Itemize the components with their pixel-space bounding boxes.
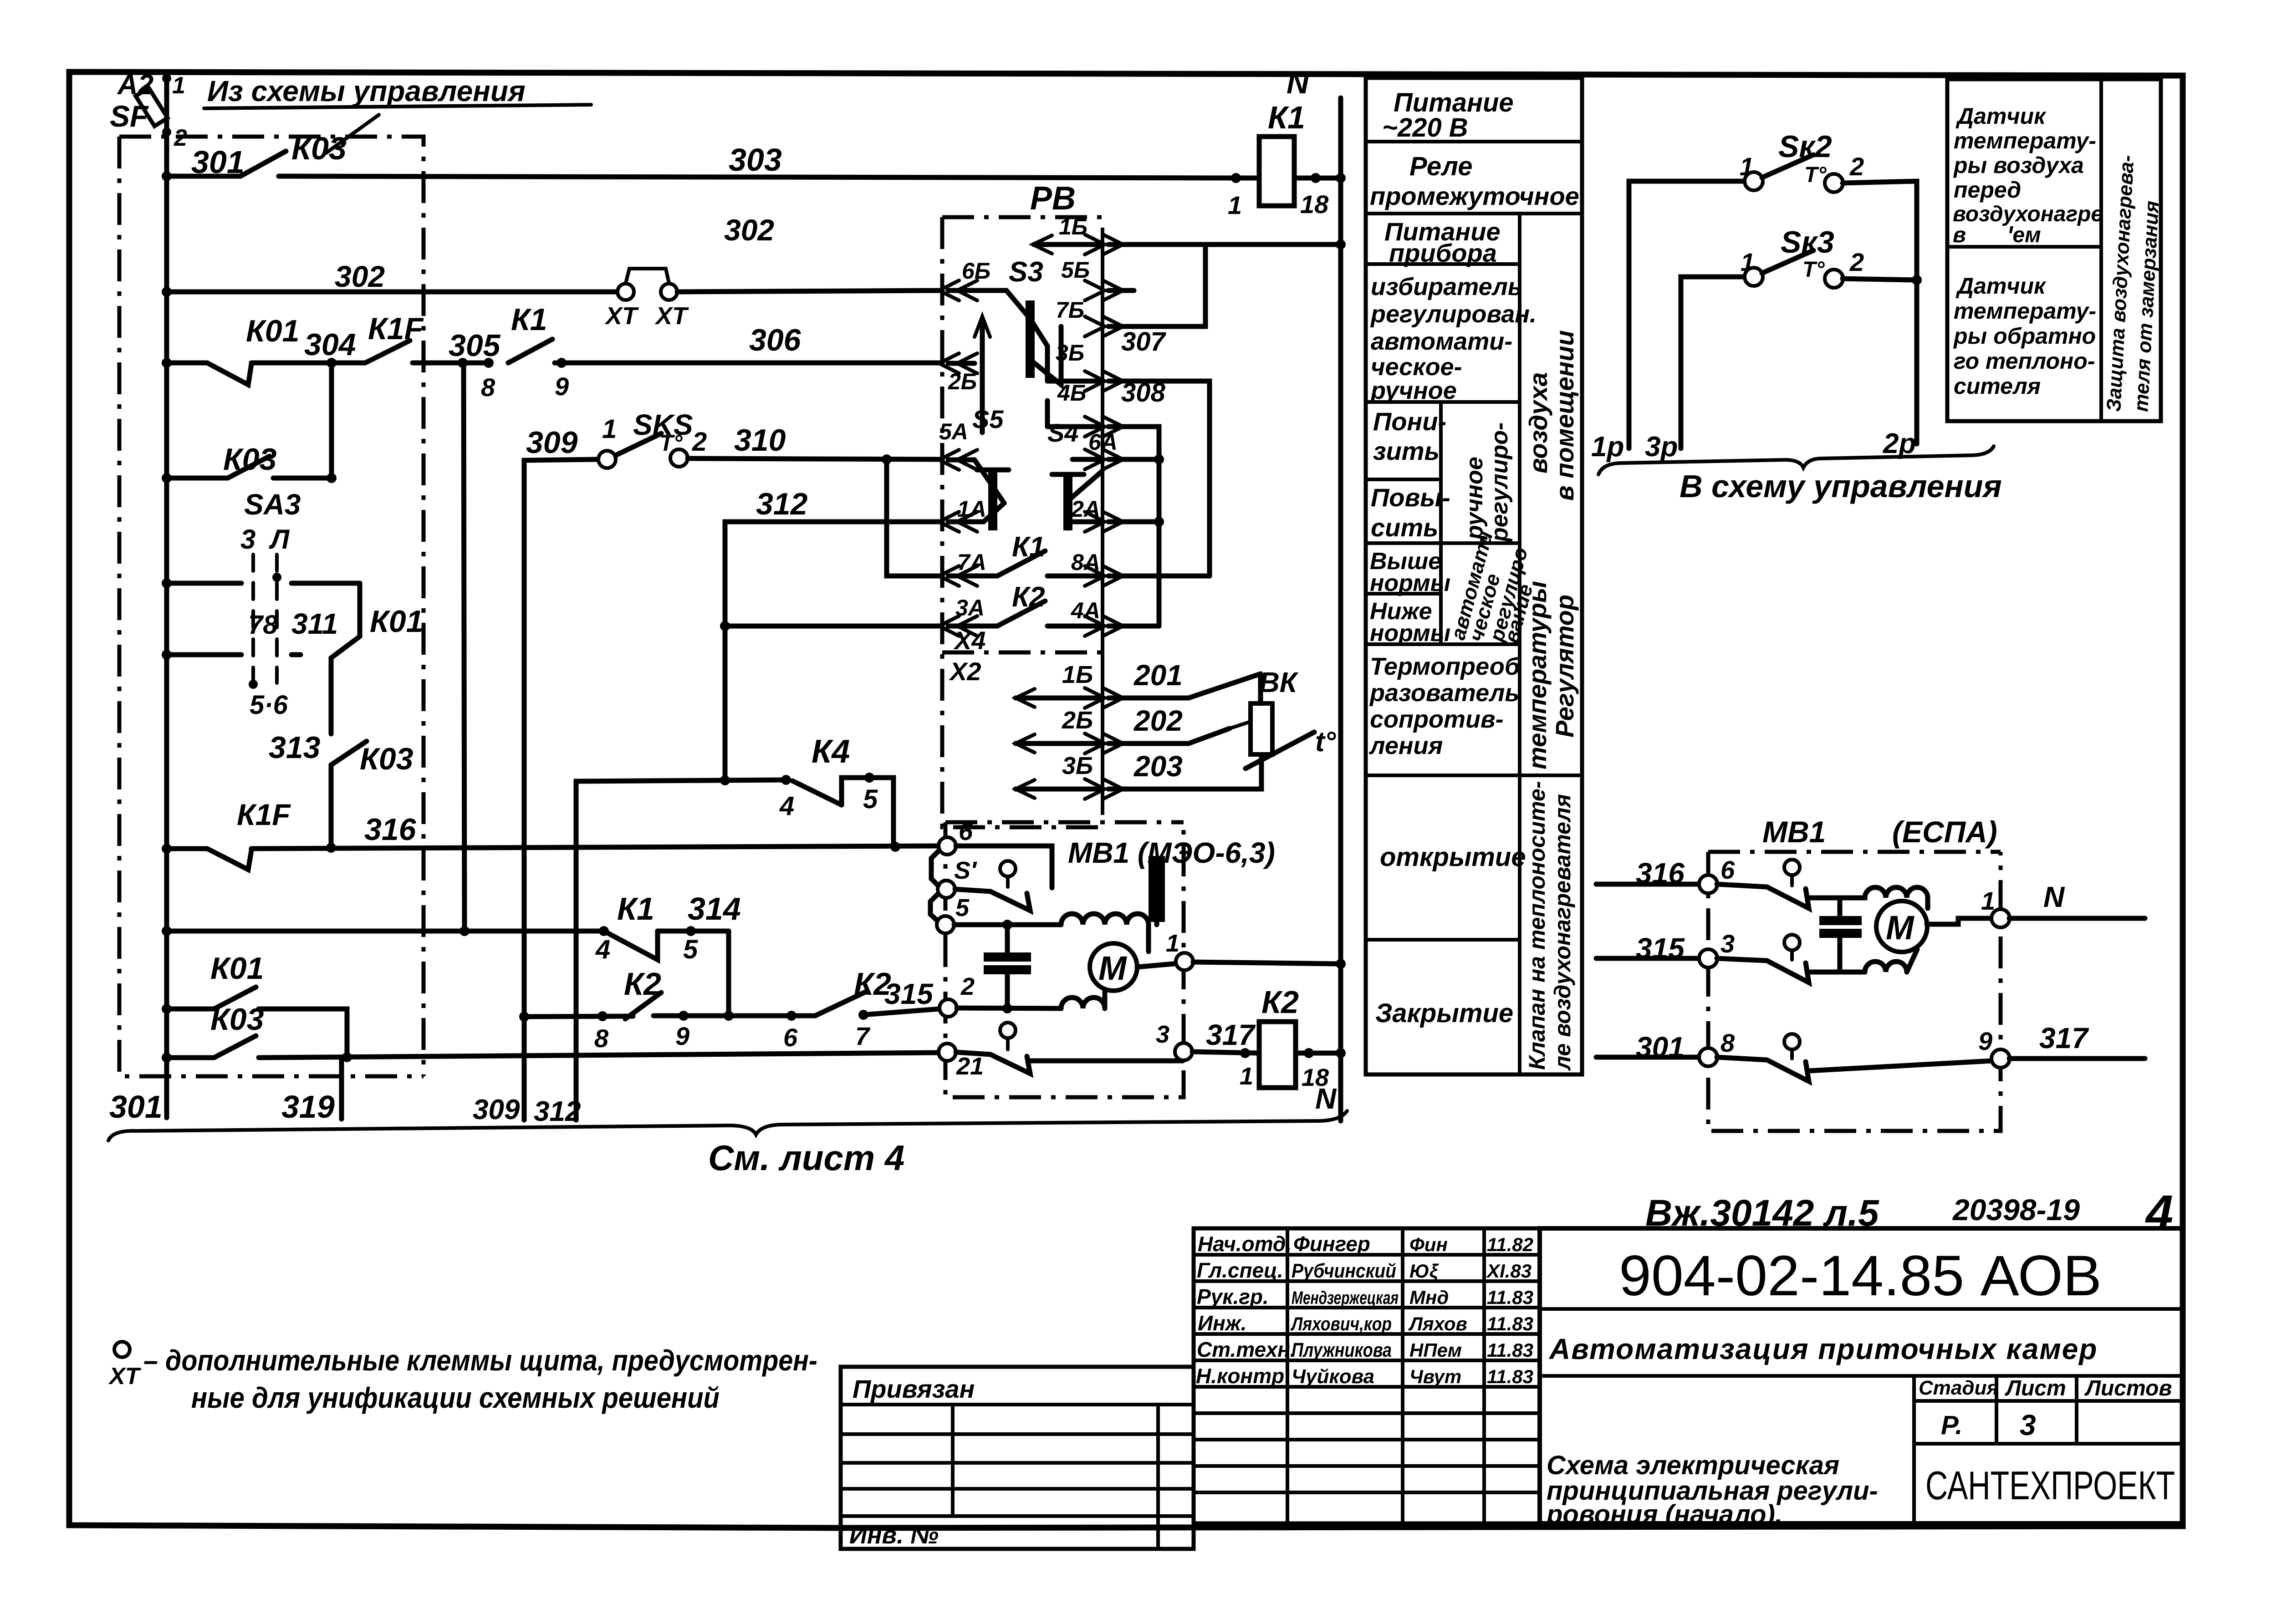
svg-text:4: 4 — [2145, 1185, 2173, 1240]
svg-text:регулиро-: регулиро- — [1486, 423, 1513, 543]
svg-text:Юξ: Юξ — [1409, 1260, 1439, 1282]
label: Из схемы управления — [204, 75, 591, 153]
contact K01 (bottom left) — [162, 951, 347, 1058]
node labels 1p 3p 2p and brace to control scheme — [1591, 428, 2002, 504]
svg-text:ровония (начало).: ровония (начало). — [1546, 1500, 1782, 1529]
svg-text:МВ1 (МЭО-6,3): МВ1 (МЭО-6,3) — [1068, 836, 1275, 869]
svg-text:К03: К03 — [291, 131, 347, 166]
svg-text:2: 2 — [1849, 248, 1864, 276]
regulator PB (dash-dot box) — [942, 180, 1103, 827]
svg-text:316: 316 — [364, 812, 417, 847]
wire from node 305 down to K1-314 row — [464, 363, 465, 931]
node 18 of relay K1 — [1294, 176, 1341, 181]
contact K4 row — [576, 733, 893, 1120]
svg-text:разователь: разователь — [1369, 679, 1519, 707]
svg-text:Мнд: Мнд — [1409, 1287, 1449, 1308]
svg-text:Н.контр: Н.контр — [1196, 1364, 1284, 1388]
svg-text:сить: сить — [1371, 513, 1438, 542]
svg-text:регулирован.: регулирован. — [1370, 300, 1537, 328]
terminal S' of MB1 — [938, 881, 955, 898]
svg-text:температу-: температу- — [1954, 298, 2096, 324]
svg-text:1: 1 — [1228, 191, 1242, 219]
svg-text:203: 203 — [1133, 750, 1183, 783]
terminal 6A / contact S4 — [1047, 418, 1164, 530]
svg-text:Привязан: Привязан — [853, 1375, 975, 1403]
svg-text:312: 312 — [756, 487, 808, 521]
svg-text:1Б: 1Б — [1059, 214, 1087, 239]
svg-text:Регулятор: Регулятор — [1550, 595, 1579, 738]
svg-text:3Б: 3Б — [1056, 340, 1084, 366]
svg-text:К01: К01 — [246, 314, 299, 348]
wire 301 into terminal 8 — [1596, 1028, 1735, 1066]
svg-text:N: N — [1315, 1082, 1337, 1115]
svg-text:Фингер: Фингер — [1293, 1232, 1370, 1256]
svg-text:9: 9 — [1978, 1027, 1992, 1055]
svg-text:18: 18 — [1300, 190, 1329, 219]
wire 316 row with contact K1F — [162, 798, 939, 870]
terminal 7B, wire up to 1B net — [1056, 244, 1205, 336]
terminal 1 / N wire — [1991, 909, 2010, 927]
svg-text:Р.: Р. — [1941, 1410, 1963, 1440]
terminal 3 of MB1 and wire 317 to relay K2 — [1175, 1043, 1192, 1060]
svg-text:ческое-: ческое- — [1371, 353, 1462, 381]
svg-text:перед: перед — [1954, 177, 2021, 203]
svg-text:904-02-14.85 АОВ: 904-02-14.85 АОВ — [1619, 1244, 2102, 1308]
svg-text:319: 319 — [281, 1089, 335, 1125]
title block: привязан table — [841, 1367, 1194, 1549]
svg-text:Плужникова: Плужникова — [1292, 1339, 1392, 1361]
X2 terminal 2B / wire 202 — [1016, 704, 1230, 753]
svg-text:306: 306 — [749, 323, 802, 357]
svg-text:Стадия: Стадия — [1919, 1377, 1998, 1399]
svg-text:Термопреоб: Термопреоб — [1370, 653, 1521, 680]
svg-text:305: 305 — [449, 328, 501, 363]
svg-text:2: 2 — [960, 973, 975, 1000]
capacitor in MB1 — [954, 920, 1031, 1008]
svg-text:В схему управления: В схему управления — [1680, 468, 2002, 504]
svg-text:301: 301 — [109, 1089, 163, 1125]
svg-text:21: 21 — [956, 1053, 984, 1080]
svg-text:11.83: 11.83 — [1487, 1339, 1533, 1361]
svg-text:XI.83: XI.83 — [1486, 1260, 1532, 1282]
svg-text:302: 302 — [335, 260, 385, 293]
svg-text:ные для унификации схемных р: ные для унификации схемных решений — [191, 1381, 720, 1414]
wire 302 with XT terminals — [162, 213, 942, 330]
svg-text:К2: К2 — [1261, 984, 1299, 1020]
node 8 — [484, 358, 494, 368]
svg-text:нормы: нормы — [1370, 570, 1450, 596]
svg-text:1Б: 1Б — [1062, 661, 1093, 688]
temperature switch SK2 circuit — [1629, 129, 1917, 448]
actuator MB1 (МЭО-6,3) dash-dot box — [945, 822, 1275, 1097]
svg-text:2Б: 2Б — [1062, 707, 1093, 734]
terminal 9 / wire 317 — [1991, 1049, 2010, 1068]
node 9 — [555, 361, 942, 366]
node 301 on bus — [162, 171, 172, 181]
terminal 5 of MB1 — [937, 916, 954, 933]
svg-text:5Б: 5Б — [1061, 257, 1090, 283]
svg-text:К03: К03 — [360, 742, 414, 776]
terminal 3B / wire 307 — [1047, 327, 1210, 576]
svg-text:9: 9 — [555, 372, 569, 401]
svg-text:МВ1: МВ1 — [1762, 815, 1826, 849]
svg-text:К01: К01 — [210, 951, 264, 986]
svg-text:К01: К01 — [370, 604, 423, 639]
svg-text:11.83: 11.83 — [1487, 1287, 1533, 1308]
svg-text:309: 309 — [526, 425, 578, 460]
X2 terminal 1B / wire 201 — [1016, 659, 1261, 708]
middle annotation table — [1366, 78, 1582, 1074]
svg-text:S5: S5 — [972, 405, 1004, 433]
svg-text:11.82: 11.82 — [1487, 1234, 1533, 1255]
panel boundary (dash-dot rectangle) — [119, 137, 424, 1076]
svg-text:К1: К1 — [1268, 100, 1305, 135]
terminal 1 of MB1 (right edge) and wire to N — [1176, 953, 1193, 970]
terminal 4B / wire 308 — [1047, 378, 1166, 626]
svg-text:ле воздухонагревателя: ле воздухонагревателя — [1550, 794, 1575, 1071]
svg-text:N: N — [1287, 66, 1310, 100]
terminal 6 of MB1 — [939, 837, 956, 855]
right sensor table — [1947, 79, 2163, 421]
svg-text:1: 1 — [1240, 1063, 1253, 1090]
svg-text:t°: t° — [1315, 726, 1337, 758]
svg-text:7Б: 7Б — [1056, 297, 1084, 323]
svg-text:3р: 3р — [1645, 431, 1678, 463]
wire 304/305/306 row — [162, 302, 942, 402]
svg-text:НПем: НПем — [1409, 1339, 1462, 1361]
svg-text:ручное: ручное — [1370, 377, 1457, 404]
contact K03 (second row) — [162, 442, 337, 483]
svg-text:2: 2 — [692, 427, 707, 457]
svg-text:Инж.: Инж. — [1198, 1311, 1247, 1335]
wire 3A row — [720, 621, 942, 631]
resistance thermometer BK with t° — [1230, 667, 1337, 769]
svg-text:1: 1 — [1166, 930, 1179, 957]
svg-text:3А: 3А — [955, 595, 985, 621]
svg-text:Ляхов: Ляхов — [1408, 1313, 1467, 1334]
svg-text:К03: К03 — [210, 1002, 264, 1037]
solenoid (solid black bar) in MB1 — [1149, 856, 1165, 922]
svg-text:ручное: ручное — [1461, 457, 1488, 540]
svg-text:311: 311 — [291, 607, 338, 640]
svg-text:ХТ: ХТ — [108, 1363, 142, 1390]
svg-text:температу-: температу- — [1954, 128, 2096, 153]
svg-text:2: 2 — [1849, 152, 1864, 181]
svg-text:4: 4 — [779, 791, 794, 821]
wire 312 — [725, 487, 942, 780]
svg-text:прибора: прибора — [1389, 239, 1497, 267]
wire 316 into terminal 6 — [1596, 855, 1735, 893]
svg-text:N: N — [2043, 881, 2065, 913]
svg-text:317: 317 — [2039, 1022, 2089, 1054]
svg-text:Рубчинский: Рубчинский — [1292, 1260, 1396, 1282]
contact S3 — [948, 256, 1061, 385]
svg-text:воздуха: воздуха — [1524, 372, 1552, 473]
svg-text:Из схемы управления: Из схемы управления — [207, 75, 526, 107]
svg-text:К1F: К1F — [368, 311, 424, 346]
svg-text:температуры: температуры — [1523, 581, 1552, 769]
svg-text:избиратель: избиратель — [1371, 273, 1522, 300]
svg-text:М: М — [1098, 949, 1127, 987]
svg-text:3: 3 — [1721, 929, 1735, 958]
contact K03 (bottom left, wire to 21) — [162, 1002, 939, 1063]
svg-text:См. лист 4: См. лист 4 — [708, 1138, 904, 1178]
svg-text:ры обратно: ры обратно — [1953, 323, 2096, 349]
svg-text:309: 309 — [473, 1094, 520, 1125]
svg-text:ХТ: ХТ — [604, 302, 639, 330]
svg-text:315: 315 — [884, 977, 934, 1010]
svg-text:6: 6 — [959, 817, 973, 845]
svg-text:К1: К1 — [617, 891, 654, 927]
title block: scheme name — [1546, 1451, 1878, 1529]
temperature switch SK3 circuit — [1681, 225, 1922, 448]
relay coil K2 — [1259, 984, 1299, 1088]
svg-text:7: 7 — [855, 1022, 871, 1050]
svg-text:5: 5 — [955, 894, 970, 921]
svg-text:1: 1 — [1981, 886, 1995, 915]
title block: document numbers — [1645, 1185, 2173, 1240]
title block: стадия / лист / листов — [1914, 1376, 2183, 1523]
svg-text:сопротив-: сопротив- — [1370, 706, 1504, 733]
svg-text:S′: S′ — [954, 857, 977, 884]
contact K2 (between rows) — [624, 966, 661, 1019]
terminal 3A / contact K2 / terminal 4A — [939, 581, 1159, 636]
svg-text:6Б: 6Б — [962, 258, 990, 284]
svg-text:~220 В: ~220 В — [1382, 113, 1468, 143]
svg-text:9: 9 — [675, 1022, 689, 1050]
svg-text:4А: 4А — [1071, 598, 1100, 623]
svg-text:– дополнительные клеммы щита: – дополнительные клеммы щита, предусмотр… — [143, 1344, 817, 1377]
contact K1 with jumper 314 — [595, 891, 741, 1016]
limit switch (upper) inside MB1 — [955, 846, 1052, 911]
svg-text:304: 304 — [304, 327, 356, 362]
limit switch (lower) inside MB1 — [956, 1023, 1183, 1074]
terminal 2 of MB1, wire 315 enters — [939, 999, 957, 1017]
svg-text:201: 201 — [1133, 659, 1183, 692]
svg-text:8: 8 — [594, 1024, 609, 1053]
svg-text:ления: ления — [1368, 732, 1443, 759]
wire 309 / switch SKS / wire 310 — [524, 408, 942, 1120]
svg-text:К1: К1 — [511, 302, 547, 337]
svg-text:Датчик: Датчик — [1955, 273, 2047, 299]
svg-text:313: 313 — [269, 730, 321, 765]
svg-text:78: 78 — [248, 610, 278, 640]
actuator MB1 (ЕСПА) right diagram — [1708, 815, 2001, 1131]
terminal 5A / contact S5 — [939, 405, 1009, 530]
svg-text:308: 308 — [1121, 378, 1166, 407]
svg-text:Лист: Лист — [2005, 1376, 2066, 1400]
svg-text:317: 317 — [1206, 1018, 1256, 1051]
svg-text:ꞌем: ꞌем — [2007, 223, 2041, 247]
svg-text:8: 8 — [1721, 1028, 1735, 1057]
svg-text:5А: 5А — [939, 419, 968, 444]
svg-text:зить: зить — [1373, 437, 1440, 465]
svg-text:К1: К1 — [1012, 531, 1045, 563]
svg-text:3Б: 3Б — [1062, 752, 1093, 779]
svg-text:Х2: Х2 — [949, 657, 981, 686]
svg-text:5: 5 — [683, 935, 698, 964]
limit switches inside ЕСПА actuator — [1717, 860, 1992, 1081]
svg-text:5: 5 — [863, 784, 878, 814]
svg-text:автомати-: автомати- — [1371, 328, 1512, 355]
svg-text:2Б: 2Б — [948, 369, 977, 394]
svg-text:S3: S3 — [1009, 256, 1043, 288]
wire 303 to relay K1 — [279, 176, 1259, 178]
svg-text:4: 4 — [595, 935, 610, 964]
svg-text:1: 1 — [602, 414, 617, 444]
svg-text:открытие: открытие — [1380, 842, 1526, 872]
svg-text:5·6: 5·6 — [250, 690, 288, 720]
svg-text:4Б: 4Б — [1057, 380, 1086, 406]
wire 319 vertical — [339, 1057, 344, 1119]
svg-text:Мендзержецкая: Мендзержецкая — [1292, 1288, 1399, 1308]
terminal 5B — [1061, 257, 1134, 300]
svg-text:Реле: Реле — [1409, 152, 1472, 181]
svg-text:Ст.техн.: Ст.техн. — [1197, 1338, 1296, 1361]
svg-text:промежуточное: промежуточное — [1370, 182, 1579, 210]
svg-text:8: 8 — [481, 373, 495, 402]
X2 terminal 3B / wire 203 — [1016, 750, 1261, 799]
wire 315 row (8/9/6/7) — [519, 966, 939, 1053]
svg-text:11.83: 11.83 — [1487, 1313, 1533, 1334]
svg-text:20398-19: 20398-19 — [1952, 1193, 2080, 1227]
svg-text:нормы: нормы — [1370, 620, 1450, 647]
svg-text:7А: 7А — [957, 550, 986, 575]
wire 315 into terminal 3 — [1596, 929, 1735, 967]
svg-text:Гл.спец.: Гл.спец. — [1197, 1258, 1283, 1282]
svg-text:3: 3 — [240, 524, 255, 555]
svg-text:1А: 1А — [957, 496, 986, 522]
svg-text:в помещении: в помещении — [1550, 330, 1579, 501]
svg-text:ХТ: ХТ — [654, 302, 689, 330]
svg-text:Нач.отд.: Нач.отд. — [1198, 1232, 1292, 1256]
wire: main phase bus (left vertical) — [164, 76, 169, 1118]
terminal 2A — [1068, 496, 1164, 532]
svg-text:Ляхович,кор: Ляхович,кор — [1290, 1313, 1392, 1334]
svg-text:Пони-: Пони- — [1373, 407, 1446, 436]
svg-text:Датчик: Датчик — [1955, 103, 2047, 129]
svg-text:К03: К03 — [223, 442, 277, 477]
title block: signature table — [1194, 1228, 1540, 1523]
svg-text:S4: S4 — [1047, 418, 1079, 447]
svg-text:Чвут: Чвут — [1409, 1366, 1461, 1387]
svg-text:Фин: Фин — [1409, 1234, 1448, 1255]
svg-text:Инв. №: Инв. № — [849, 1522, 939, 1549]
svg-text:Повы-: Повы- — [1371, 483, 1450, 512]
svg-text:Рук.гр.: Рук.гр. — [1197, 1285, 1269, 1308]
svg-text:1: 1 — [172, 72, 185, 99]
wire from 1B to N bus — [1108, 242, 1341, 247]
wire from 310 junction down to 7A — [887, 459, 942, 576]
svg-text:в: в — [1953, 223, 1966, 247]
contact K1 — [508, 339, 552, 363]
svg-text:Клапан на теплоносите-: Клапан на теплоносите- — [1524, 781, 1550, 1070]
svg-text:Автоматизация приточных каме: Автоматизация приточных камер — [1548, 1333, 2098, 1365]
svg-text:сителя: сителя — [1954, 373, 2041, 399]
svg-text:САНТЕХПРОЕКТ: САНТЕХПРОЕКТ — [1925, 1463, 2175, 1508]
svg-text:РВ: РВ — [1030, 180, 1076, 217]
terminal 2B (wire 306 enters), arrow up — [939, 316, 990, 433]
contact K1F — [365, 341, 410, 363]
svg-text:М: М — [1886, 909, 1915, 947]
svg-text:303: 303 — [729, 142, 782, 178]
svg-text:11.83: 11.83 — [1487, 1366, 1533, 1387]
title block: main title box — [1540, 1228, 2183, 1523]
svg-text:го теплоно-: го теплоно- — [1954, 348, 2095, 374]
svg-text:314: 314 — [688, 891, 741, 927]
svg-text:Закрытие: Закрытие — [1375, 998, 1513, 1028]
motor windings and M circle in MB1 — [1007, 914, 1184, 1008]
svg-text:310: 310 — [734, 423, 786, 458]
svg-text:Л: Л — [269, 524, 290, 555]
svg-text:К2: К2 — [1012, 581, 1045, 613]
svg-text:К2: К2 — [624, 966, 661, 1002]
svg-text:ВК: ВК — [1259, 667, 1299, 698]
svg-text:202: 202 — [1133, 704, 1183, 737]
vertical from node 304 down — [329, 363, 334, 478]
svg-text:3: 3 — [2020, 1409, 2036, 1441]
svg-text:ры воздуха: ры воздуха — [1953, 153, 2084, 178]
terminal 7A / contact K1 / terminal 8A — [939, 531, 1210, 586]
node 1 of relay K1 — [1231, 173, 1241, 183]
svg-text:Листов: Листов — [2084, 1376, 2172, 1400]
relay coil K1 — [1259, 100, 1305, 206]
chain K01 / 313 / K03 down to wire 316 — [269, 583, 423, 848]
svg-text:6: 6 — [783, 1023, 798, 1052]
node A2 / circuit breaker SF at top of bus — [110, 69, 187, 151]
svg-text:1р: 1р — [1591, 431, 1624, 463]
terminal 6B (wire 302 enters) — [939, 258, 990, 300]
svg-text:Т°: Т° — [1802, 258, 1825, 282]
selector switch SA3 with wire 311 — [162, 488, 360, 720]
svg-text:К4: К4 — [812, 733, 850, 770]
svg-text:(ЕСПА): (ЕСПА) — [1892, 815, 1997, 849]
svg-text:312: 312 — [534, 1096, 581, 1127]
contact S3 link bars (selector slide) — [1030, 319, 1047, 427]
svg-text:3: 3 — [1156, 1021, 1169, 1048]
terminal 1A (wire 312 enters) — [939, 496, 1004, 532]
contact K03 (row 301/303) — [167, 131, 347, 176]
brace "См. лист 4" at bottom — [108, 1111, 1347, 1178]
terminal 21 of MB1 — [939, 1044, 956, 1061]
contact K01 (normally closed) — [207, 363, 251, 385]
svg-text:Чуйкова: Чуйкова — [1292, 1365, 1374, 1388]
capacitor, windings and motor M in ЕСПА — [1819, 887, 1992, 972]
terminal 1B (internal wire with left arrow) — [1033, 214, 1123, 255]
svg-text:6: 6 — [1721, 855, 1735, 884]
legend note: additional terminals XT — [108, 1342, 817, 1414]
svg-text:2р: 2р — [1883, 428, 1916, 459]
svg-text:SА3: SА3 — [244, 488, 301, 521]
svg-text:302: 302 — [724, 213, 774, 247]
svg-text:307: 307 — [1121, 327, 1167, 356]
svg-text:К1F: К1F — [237, 798, 291, 831]
